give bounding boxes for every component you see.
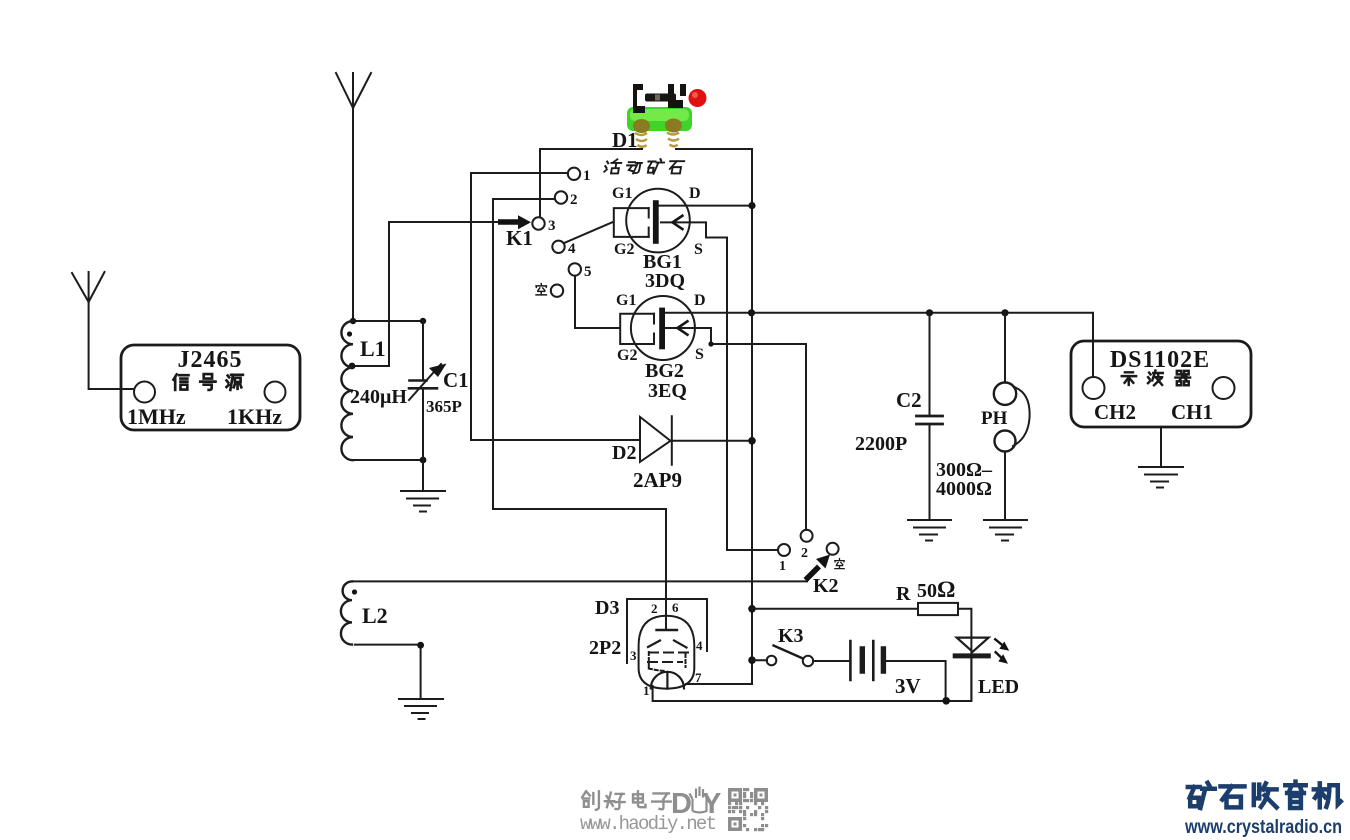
LED emission arrows <box>994 639 1009 664</box>
wire battery to bottom node <box>886 661 946 701</box>
switch K1 contact 1 <box>568 168 580 180</box>
wire bus to resistor R <box>752 608 918 610</box>
resistor R <box>918 603 958 615</box>
wire BG1 source to K2 contact1 <box>661 222 778 550</box>
headphone PH <box>994 383 1030 452</box>
transistor BG2 gate box <box>620 314 654 344</box>
svg-text:4: 4 <box>696 638 703 653</box>
svg-text:D: D <box>689 185 701 202</box>
tube D3 filament dome <box>651 672 684 689</box>
D1 brass post left <box>633 119 650 133</box>
svg-text:LED: LED <box>978 676 1019 698</box>
svg-text:www.crystalradio.cn: www.crystalradio.cn <box>1184 816 1342 838</box>
node L2 bottom <box>417 642 424 649</box>
ground under L2 <box>399 699 443 719</box>
capacitor C2 <box>917 416 943 424</box>
node BG2 D bus <box>748 309 755 316</box>
logo 矿石收音机 (crystalradio) <box>1188 782 1341 808</box>
svg-text:2P2: 2P2 <box>589 637 621 659</box>
svg-text:S: S <box>695 346 704 363</box>
svg-text:C2: C2 <box>896 388 922 412</box>
wire D1 right leg to long vertical <box>676 148 752 150</box>
watermark QR code <box>728 788 768 831</box>
D1 brass post right <box>665 119 682 133</box>
arrowhead BG2 source <box>678 321 689 336</box>
transistor BG1 circle <box>626 189 690 253</box>
svg-text:1: 1 <box>779 559 786 574</box>
svg-text:S: S <box>694 241 703 258</box>
label 信号源 (signal source) <box>173 374 242 390</box>
switch K1 contact 5 <box>569 263 581 275</box>
transistor BG2 circle <box>631 296 695 360</box>
node BG2 S corner <box>708 341 713 346</box>
terminal CH2 circle <box>1083 377 1105 399</box>
svg-text:D1: D1 <box>612 128 638 152</box>
switch K1 wiper arrow <box>498 215 531 229</box>
svg-text:1MHz: 1MHz <box>127 404 186 429</box>
switch K3 left contact <box>767 656 777 666</box>
svg-text:C1: C1 <box>443 368 469 392</box>
variable capacitor C1 <box>409 364 441 400</box>
inductor L2 <box>341 581 352 644</box>
svg-text:2: 2 <box>651 601 658 616</box>
wire PH branch <box>1004 313 1006 520</box>
node bottom rail battery <box>942 697 950 705</box>
svg-text:R: R <box>896 583 911 605</box>
svg-text:G2: G2 <box>617 347 637 364</box>
tube D3 grid dashed rows <box>648 653 692 663</box>
terminal CH1 circle <box>1213 377 1235 399</box>
svg-text:4000Ω: 4000Ω <box>936 478 992 500</box>
svg-text:G1: G1 <box>612 185 632 202</box>
svg-text:3: 3 <box>630 648 637 663</box>
wire K1 contact4 to BG1 G1 (diagonal) <box>564 222 613 243</box>
node L1 tap <box>349 363 356 370</box>
svg-text:K2: K2 <box>813 575 839 597</box>
wire tube pin1 to LED bottom (bottom rail) <box>653 658 972 701</box>
svg-text:2200P: 2200P <box>855 433 907 455</box>
label 示波器 (oscilloscope) <box>1122 371 1190 386</box>
svg-text:DS1102E: DS1102E <box>1110 347 1210 373</box>
watermark 创好电子DIY <box>582 791 671 809</box>
wire BG2 source to K2 contact2 <box>666 328 806 530</box>
switch K3 lever <box>774 646 804 659</box>
wire oscilloscope ground <box>1160 427 1162 467</box>
svg-text:2: 2 <box>801 546 808 561</box>
svg-text:3: 3 <box>548 218 556 234</box>
svg-text:G1: G1 <box>616 292 636 309</box>
svg-text:K3: K3 <box>778 625 804 647</box>
switch K2 contact 1 <box>778 544 790 556</box>
wire tube pin7 to bus corner <box>686 683 752 685</box>
tube D3 cathode dashed sleeve <box>649 652 686 671</box>
battery 3V <box>850 641 883 680</box>
C1 arrow head <box>429 364 447 378</box>
svg-text:D: D <box>694 292 706 309</box>
svg-text:BG2: BG2 <box>645 360 684 382</box>
wire L2 top to K2 wiper <box>352 578 807 581</box>
switch K1 contact 2 <box>555 191 567 203</box>
node D2 cathode bus <box>748 437 756 445</box>
wire bus to K3 left contact <box>752 659 767 661</box>
vacuum tube D3 outline <box>639 616 695 689</box>
wire C1 bottom lead <box>422 389 424 461</box>
svg-text:2: 2 <box>570 192 578 208</box>
wire K1 wiper to L1 tap <box>356 222 500 366</box>
svg-text:365P: 365P <box>426 397 462 416</box>
L1 phase dot <box>347 331 352 336</box>
svg-text:D2: D2 <box>612 442 636 464</box>
wire C1 top lead <box>422 321 424 380</box>
label 空 (empty) K2 <box>835 559 844 569</box>
switch K2 empty contact <box>827 543 839 555</box>
node bus to R wire <box>748 605 756 613</box>
tube D3 plate dashes <box>648 641 687 648</box>
svg-text:7: 7 <box>695 670 702 685</box>
transistor BG1 gate box <box>614 208 649 237</box>
ground under oscilloscope <box>1139 467 1183 488</box>
switch K3 right contact <box>803 656 813 666</box>
wire C2 branch <box>929 313 931 520</box>
svg-text:5: 5 <box>584 264 592 280</box>
watermark DIY hand glyph <box>690 787 707 813</box>
LED diode symbol <box>955 637 988 700</box>
svg-text:L2: L2 <box>362 603 388 628</box>
svg-text:3EQ: 3EQ <box>648 380 687 402</box>
wire resistor R to LED top <box>958 609 971 637</box>
transistor BG2 gate bar <box>659 308 665 350</box>
wire K3 right contact to battery <box>813 660 850 662</box>
svg-text:J2465: J2465 <box>178 347 243 373</box>
tube D3 pin box (pins 2,6,3,4) <box>627 599 707 663</box>
diode D2 <box>640 416 672 465</box>
node C2 top <box>926 309 933 316</box>
wire D2 cathode to bus <box>673 440 752 442</box>
wire K1 contact1 left and down to D2 anode <box>471 173 640 440</box>
terminal 1MHz circle <box>134 382 155 403</box>
ground under C1 <box>401 491 445 512</box>
label 空 (empty) K1 <box>536 284 546 295</box>
svg-text:CH2: CH2 <box>1094 400 1136 424</box>
switch K2 wiper arrow <box>806 555 831 581</box>
D1 red knob <box>689 89 707 107</box>
arrowhead BG1 source <box>673 215 684 230</box>
antenna ANT1 (main) <box>336 73 371 321</box>
svg-text:3V: 3V <box>895 674 921 698</box>
wire BG2 drain to oscilloscope CH2 <box>665 313 1093 377</box>
oscilloscope DS1102E box <box>1071 341 1251 427</box>
svg-text:D3: D3 <box>595 597 619 619</box>
svg-text:50Ω: 50Ω <box>917 577 955 602</box>
svg-text:1KHz: 1KHz <box>227 404 282 429</box>
D1 adjusting rod <box>645 94 676 102</box>
switch K2 contact 2 <box>801 530 813 542</box>
ground under C2 <box>908 520 951 541</box>
node C1 bottom <box>420 457 427 464</box>
detector D1 photo: green base <box>627 84 707 147</box>
signal generator J2465 box <box>121 345 300 430</box>
wire L1 top to C1 top <box>353 320 423 322</box>
svg-text:1: 1 <box>583 168 591 184</box>
wire long vertical right bus <box>751 149 753 684</box>
L2 phase dot <box>352 589 357 594</box>
svg-text:L1: L1 <box>360 336 386 361</box>
wire L2 bottom to ground <box>355 645 421 699</box>
svg-text:4: 4 <box>568 241 576 257</box>
svg-text:6: 6 <box>672 600 679 615</box>
terminal 1KHz circle <box>265 382 286 403</box>
svg-text:3DQ: 3DQ <box>645 270 685 292</box>
wire C1 bottom to ground <box>422 460 424 491</box>
inductor L1 <box>341 321 353 460</box>
wire BG1 drain to bus <box>659 205 752 207</box>
svg-text:1: 1 <box>643 683 650 698</box>
tube D3 grid cap bar <box>657 629 678 631</box>
wire K1 contact2 left and down to D3 grid <box>493 199 666 630</box>
node bus to K3 <box>748 656 756 664</box>
wire K1 contact5 to BG2 G1 <box>575 276 620 328</box>
svg-text:240μH: 240μH <box>350 386 407 408</box>
node C1 top <box>420 318 426 324</box>
transistor BG1 gate bar <box>653 200 659 244</box>
wire D1 left leg to K1 contact3 <box>540 149 642 217</box>
svg-text:K1: K1 <box>506 226 533 250</box>
svg-text:PH: PH <box>981 408 1008 429</box>
D1 right bracket <box>668 84 686 108</box>
wire L1 bottom to C1 bottom <box>354 459 423 461</box>
antenna ANT2 (signal source) <box>72 272 134 389</box>
switch K1 empty contact <box>551 285 563 297</box>
svg-text:www.haodiy.net: www.haodiy.net <box>580 813 717 835</box>
switch K1 contact 3 <box>532 217 544 229</box>
svg-text:G2: G2 <box>614 241 634 258</box>
svg-text:2AP9: 2AP9 <box>633 468 682 492</box>
switch K1 contact 4 <box>552 241 564 253</box>
node PH top <box>1001 309 1008 316</box>
node L1 top <box>350 318 356 324</box>
label 活动矿石 (movable crystal) <box>604 159 684 174</box>
node BG1 D bus <box>748 202 755 209</box>
svg-text:CH1: CH1 <box>1171 400 1213 424</box>
ground under PH <box>984 520 1027 541</box>
D1 left bracket <box>633 84 645 113</box>
